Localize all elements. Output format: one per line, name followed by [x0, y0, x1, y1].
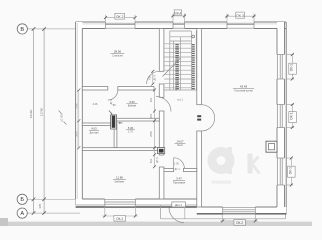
svg-text:поз.2: поз.2: [177, 98, 184, 101]
svg-text:370: 370: [38, 203, 42, 208]
svg-text:2550: 2550: [149, 131, 153, 137]
svg-text:ОК-3: ОК-3: [236, 14, 244, 18]
svg-text:Ванная: Ванная: [128, 104, 137, 107]
svg-text:11.86: 11.86: [116, 175, 123, 179]
svg-text:Гостиная-кухня: Гостиная-кухня: [234, 88, 253, 92]
svg-text:Кабинет: Кабинет: [115, 179, 126, 183]
svg-text:28.56: 28.56: [114, 49, 122, 53]
svg-text:8.63: 8.63: [91, 127, 97, 131]
svg-text:5.36: 5.36: [128, 126, 134, 130]
svg-text:ОК-1: ОК-1: [290, 112, 294, 119]
svg-text:910: 910: [149, 97, 153, 102]
svg-text:250: 250: [149, 113, 153, 118]
svg-text:43.49: 43.49: [240, 84, 248, 88]
svg-text:910: 910: [147, 75, 151, 80]
svg-text:Спальня: Спальня: [112, 53, 123, 57]
svg-text:ОК-4: ОК-4: [175, 11, 182, 15]
svg-text:А: А: [20, 211, 24, 217]
svg-text:ОК-2: ОК-2: [116, 217, 123, 221]
svg-text:4.16: 4.16: [93, 103, 98, 106]
svg-text:5.50: 5.50: [129, 100, 135, 104]
svg-text:вверх: вверх: [175, 83, 178, 91]
svg-text:ДГ-1: ДГ-1: [175, 168, 181, 171]
svg-text:11760: 11760: [40, 108, 44, 117]
svg-text:ДН-1: ДН-1: [175, 203, 182, 207]
svg-text:ДГ-3: ДГ-3: [153, 74, 157, 80]
svg-text:14.07: 14.07: [176, 139, 184, 143]
svg-text:Б: Б: [20, 197, 24, 203]
svg-text:ОК-1: ОК-1: [288, 167, 292, 174]
svg-text:ОК-2: ОК-2: [116, 15, 124, 19]
svg-text:2620: 2620: [76, 131, 79, 137]
svg-text:ОК-1: ОК-1: [290, 64, 294, 71]
svg-text:ДГ-3: ДГ-3: [155, 157, 159, 163]
svg-text:3280: 3280: [76, 103, 79, 109]
svg-text:1.70: 1.70: [128, 130, 133, 133]
svg-text:±0.000: ±0.000: [60, 113, 64, 122]
svg-text:ОК-2: ОК-2: [236, 221, 243, 225]
svg-text:Прихожая: Прихожая: [173, 181, 186, 185]
svg-text:910: 910: [149, 158, 153, 163]
svg-text:12160: 12160: [29, 109, 33, 118]
svg-text:ВК: ВК: [113, 104, 117, 107]
svg-text:Детская: Детская: [90, 131, 100, 134]
svg-text:В: В: [20, 27, 24, 33]
svg-text:1.95: 1.95: [174, 163, 179, 166]
svg-text:Холл: Холл: [177, 143, 184, 147]
svg-text:3.47: 3.47: [176, 177, 182, 181]
svg-text:ДГ-2: ДГ-2: [109, 99, 113, 105]
